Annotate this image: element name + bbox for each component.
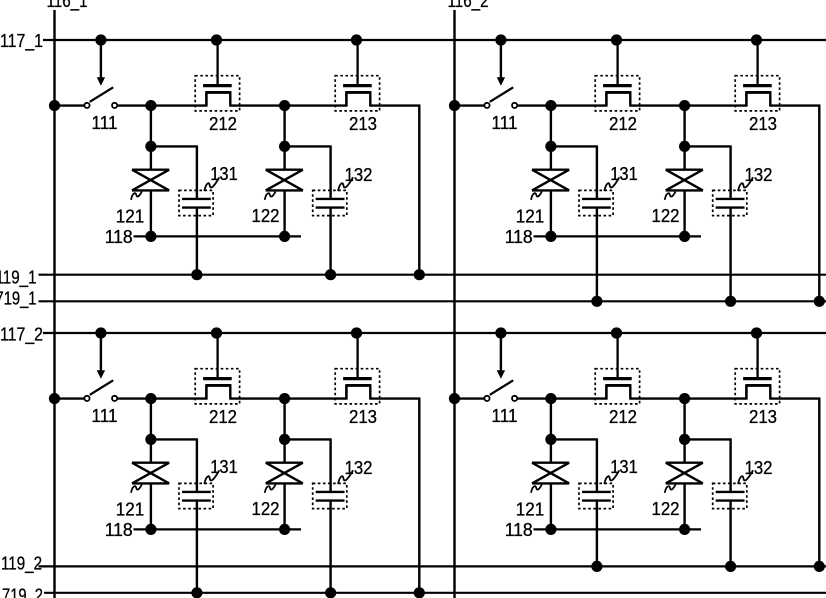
svg-text:116_2: 116_2 bbox=[448, 0, 489, 12]
svg-text:119_1: 119_1 bbox=[0, 267, 37, 288]
svg-text:719_2: 719_2 bbox=[2, 585, 43, 598]
svg-text:719_1: 719_1 bbox=[0, 289, 37, 310]
svg-text:119_2: 119_2 bbox=[1, 554, 42, 575]
svg-text:116_1: 116_1 bbox=[47, 0, 88, 12]
svg-text:117_2: 117_2 bbox=[0, 324, 43, 345]
svg-text:117_1: 117_1 bbox=[0, 31, 43, 52]
